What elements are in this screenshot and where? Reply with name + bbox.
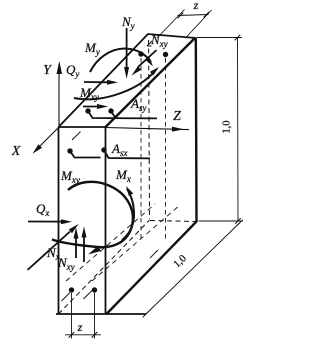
angle mark [147,41,152,46]
N_x force arrow [28,232,71,271]
N_xy arrow on top face [138,50,157,67]
N_y force arrow [126,28,128,70]
z dim extension lines (bottom) [71,293,73,339]
right 1,0 dimension line [237,38,240,222]
hidden back-left edge (dashed) [148,40,151,219]
top face edges [59,34,196,127]
svg-text:1,0: 1,0 [222,120,233,133]
shear arrow upper (right) [84,81,110,83]
top face back rebar dots [138,51,143,56]
A_sy hooks and bar line [88,111,157,118]
shear arrow lower (right) [83,106,100,108]
M_x moment arc [122,189,134,240]
shell element front face [56,127,146,314]
right 1,0 dimension extension lines [197,37,242,39]
svg-text:X: X [11,144,21,159]
N_xy lower vertical arrow [83,235,85,262]
vertical arrow A [75,236,77,258]
svg-text:Z: Z [173,109,181,124]
right face edges [107,38,197,315]
bottom diagonal 1,0 dimension line [146,223,241,315]
svg-text:z: z [193,0,199,12]
A_sx hooks and bar line [70,150,150,158]
z dimension line (bottom) [65,334,101,336]
Z axis [106,128,190,130]
A_sy rebar dots on top face [85,108,90,113]
hidden bottom-left edge (dashed) [59,220,150,314]
A_sx rebar dots on front face [67,148,72,153]
M_xy lower moment arc [52,182,133,247]
hidden vertical bars (dashed) [140,58,142,240]
concrete hatch marks [62,132,159,302]
Y axis [58,72,60,127]
Q_x force arrow [28,221,64,223]
z dim extension lines (top, slanted) [157,10,185,39]
X axis [36,128,59,151]
M_xy upper moment arc [74,71,155,99]
hidden back-bottom edge (dashed) [150,221,197,222]
front bottom rebar dots [69,287,74,292]
z dimension line (top) [178,15,209,16]
svg-text:z: z [77,320,83,334]
M_y moment arc [90,49,151,73]
hidden x-direction bars (dashed diagonals) [66,204,155,281]
top-right slanted edge [106,38,196,128]
